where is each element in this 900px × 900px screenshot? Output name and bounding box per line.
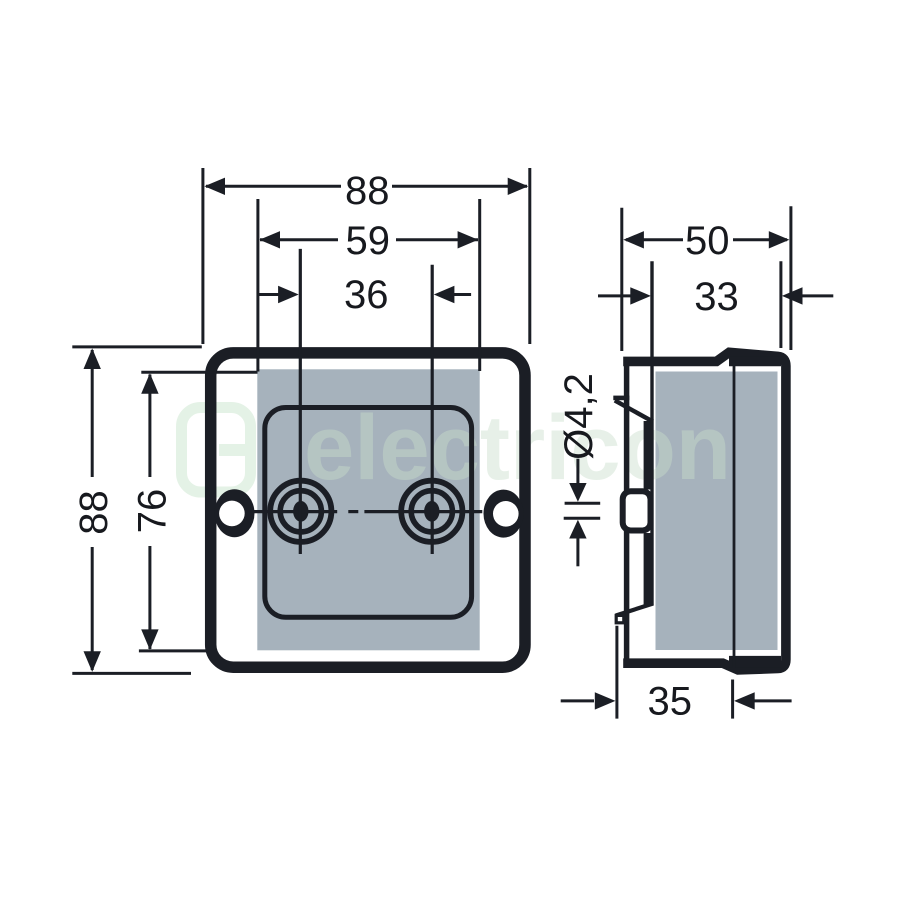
svg-text:59: 59 [346, 219, 391, 263]
dimension 88 horizontal [203, 168, 530, 344]
dimension 33 [598, 261, 833, 348]
svg-text:electricon: electricon [304, 397, 731, 499]
svg-text:88: 88 [345, 169, 390, 213]
svg-text:76: 76 [131, 489, 175, 534]
dimension 88 vertical [72, 347, 202, 674]
watermark logo bar [219, 444, 256, 456]
side view top latch stub [613, 396, 629, 401]
left mounting ear [215, 489, 255, 537]
left vertical centerline [299, 249, 302, 554]
side view top latch diagonal [615, 400, 653, 421]
front inner lid rounded rect [265, 408, 472, 618]
front outer box [211, 353, 525, 667]
svg-text:88: 88 [72, 490, 116, 535]
side view middle latch tab [623, 491, 651, 530]
watermark logo ring [182, 408, 251, 493]
svg-text:36: 36 [344, 273, 389, 317]
svg-text:33: 33 [694, 275, 739, 319]
side view body and lid outline [623, 352, 786, 670]
side view inner bar upper [644, 421, 654, 490]
dimension 76 [139, 372, 258, 651]
front view lid gray area [257, 369, 479, 650]
side view left flange wall [624, 358, 630, 667]
horizontal centerline [254, 510, 482, 513]
svg-text:35: 35 [648, 680, 693, 724]
side view inner flange line [650, 261, 653, 605]
side view body gray area [656, 372, 778, 651]
dimension 59 [258, 199, 480, 372]
right cable entry circles [401, 481, 462, 542]
side view lid bottom inner band [729, 656, 781, 668]
right mounting ear [484, 490, 524, 538]
right vertical centerline [431, 265, 434, 554]
dimension 50 [622, 206, 791, 351]
side view bottom latch diagonal [616, 604, 653, 616]
side view bottom latch stub [616, 615, 624, 622]
svg-text:50: 50 [685, 219, 730, 263]
dimension 36 [258, 293, 471, 296]
dimension 35 [561, 626, 792, 719]
dimension diameter 4,2 [564, 459, 601, 567]
side view lid joint line [733, 362, 736, 668]
watermark group [182, 397, 732, 499]
left cable entry circles [270, 481, 331, 542]
svg-text:Ø4,2: Ø4,2 [557, 373, 601, 460]
side view inner bar lower [644, 533, 654, 605]
side view lid top inner band [729, 357, 781, 366]
